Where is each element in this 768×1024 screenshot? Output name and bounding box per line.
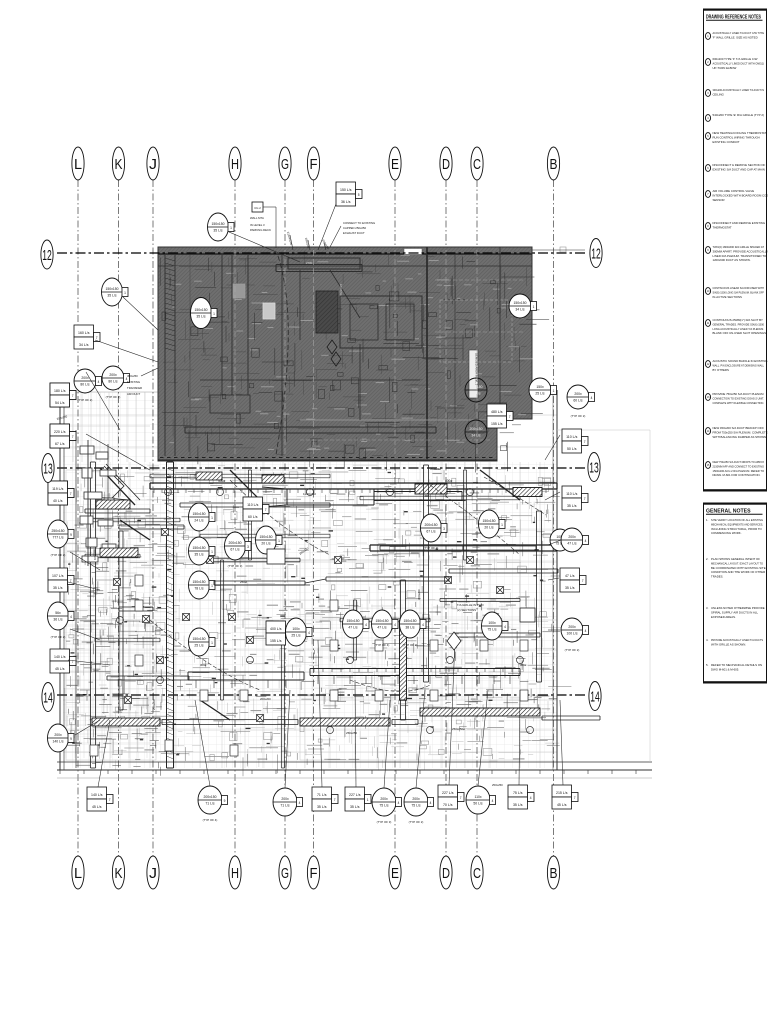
svg-text:150x150: 150x150 [211,222,224,226]
svg-text:150x150: 150x150 [192,580,205,584]
svg-text:1: 1 [213,312,215,316]
svg-text:38 L/s: 38 L/s [405,626,415,630]
svg-text:SIX(6) 1500 LONG S/A PLENUM. B: SIX(6) 1500 LONG S/A PLENUM. BLANK OFF [713,290,765,294]
svg-text:EXISTING: EXISTING [127,380,140,384]
svg-text:LINED R/A PLENUM. TRANSITIONED: LINED R/A PLENUM. TRANSITIONED TO [713,254,768,258]
svg-text:1: 1 [211,550,213,554]
svg-text:12: 12 [42,247,52,264]
svg-text:BY OTHERS: BY OTHERS [713,368,729,372]
svg-text:2700: 2700 [306,261,313,265]
svg-text:SENSOR: SENSOR [713,198,725,202]
svg-text:50 L/s: 50 L/s [567,447,577,451]
svg-text:950x250: 950x250 [430,467,441,471]
svg-text:TRANSFER: TRANSFER [127,386,142,390]
svg-text:160 L/s: 160 L/s [78,331,90,335]
svg-text:MECHANICAL LAYOUT. EXACT LAYOU: MECHANICAL LAYOUT. EXACT LAYOUT TO [711,561,764,565]
svg-text:119 L/s: 119 L/s [52,487,63,491]
svg-text:45 L/s: 45 L/s [92,805,102,809]
svg-text:75 L/s: 75 L/s [487,628,497,632]
svg-text:DEMISED AREA IN LVL 2: DEMISED AREA IN LVL 2 [475,353,479,386]
svg-text:CAPPED 250x250: CAPPED 250x250 [343,226,366,230]
svg-text:150x150: 150x150 [105,287,118,291]
svg-text:200x150: 200x150 [424,523,437,527]
svg-text:2150MM AFF AND CONNECT TO EXIS: 2150MM AFF AND CONNECT TO EXISTING [713,464,765,468]
svg-text:PROVIDE 750x250 S/A DUCT PLENU: PROVIDE 750x250 S/A DUCT PLENUM [713,392,765,396]
svg-text:(TYP OF 2): (TYP OF 2) [571,414,586,418]
svg-text:47 L/s: 47 L/s [348,626,358,630]
svg-text:THERMOSTAT: THERMOSTAT [713,225,732,229]
svg-text:13: 13 [589,459,599,476]
svg-text:45 L/s: 45 L/s [557,803,567,807]
svg-text:140 L/s: 140 L/s [91,793,103,797]
svg-text:IN-ACTIVE SECTIONS: IN-ACTIVE SECTIONS [713,295,742,299]
svg-text:B: B [550,865,558,882]
svg-text:200x150: 200x150 [228,541,241,545]
svg-text:150x150: 150x150 [482,519,495,523]
svg-text:35 L/s: 35 L/s [213,229,223,233]
svg-text:E: E [391,865,399,882]
svg-text:GENERAL TRADES. PROVIDE SIX(6): GENERAL TRADES. PROVIDE SIX(6) 1500 [713,322,765,326]
svg-text:DISCONNECT & REMOVE SECTION OF: DISCONNECT & REMOVE SECTION OF [713,163,766,167]
svg-text:1: 1 [367,798,369,802]
svg-text:(TYP OF 3): (TYP OF 3) [377,820,392,824]
svg-text:(TYP OF 2): (TYP OF 2) [78,398,93,402]
svg-text:4: 4 [422,623,424,627]
svg-text:67 L/s: 67 L/s [55,442,65,446]
svg-text:100 L/s: 100 L/s [566,632,577,636]
svg-text:25 L/s: 25 L/s [291,634,301,638]
svg-text:CONDITION AND THE WORK OF OTHE: CONDITION AND THE WORK OF OTHER [711,570,765,574]
svg-text:FROM 750x250 S/A PLENUM. COMPL: FROM 750x250 S/A PLENUM. COMPLETE [713,430,768,434]
svg-text:EXISTING: EXISTING [339,284,342,296]
svg-text:1: 1 [553,389,555,393]
svg-text:100x: 100x [292,627,300,631]
svg-text:7: 7 [96,336,98,340]
svg-text:200x: 200x [81,376,89,380]
svg-text:TRADES.: TRADES. [711,575,724,579]
svg-text:PROVIDE ACOUSTICALLY LINED T/A: PROVIDE ACOUSTICALLY LINED T/A DUCTS [711,638,763,642]
svg-text:150x150: 150x150 [346,619,359,623]
svg-text:200x: 200x [54,733,62,737]
svg-text:35 L/s: 35 L/s [567,504,577,508]
svg-text:9: 9 [224,799,226,803]
svg-text:1: 1 [501,523,503,527]
svg-text:CONTINUOUS LINEAR S/A DIFFUSER: CONTINUOUS LINEAR S/A DIFFUSER WITH [713,286,765,290]
svg-text:56x: 56x [55,611,61,615]
svg-text:WALL. P/N ENCLOSURE AT DEMISIN: WALL. P/N ENCLOSURE AT DEMISING WALL [713,363,765,367]
svg-text:1: 1 [124,291,126,295]
svg-text:1: 1 [211,641,213,645]
svg-text:200x: 200x [380,797,388,801]
svg-text:UNLESS NOTED OTHERWISE PROVIDE: UNLESS NOTED OTHERWISE PROVIDE [711,606,765,610]
svg-text:4: 4 [585,539,587,543]
svg-text:220 L/s: 220 L/s [54,430,66,434]
svg-text:250x150: 250x150 [51,529,64,533]
svg-text:EXHAUST DUCT: EXHAUST DUCT [343,231,365,235]
svg-text:WITH GRILLE AS SHOWN.: WITH GRILLE AS SHOWN. [711,642,746,646]
svg-text:47 L/s: 47 L/s [565,574,575,578]
svg-text:7: 7 [265,508,267,512]
svg-text:35 L/s: 35 L/s [513,803,523,807]
svg-text:35 L/s: 35 L/s [565,586,575,590]
svg-text:(TYP OF 4): (TYP OF 4) [203,818,218,822]
svg-text:BLANK OFF UN-USED SLOT OPENING: BLANK OFF UN-USED SLOT OPENINGS [713,331,767,335]
svg-text:AIR DUCT: AIR DUCT [127,392,140,396]
svg-text:4: 4 [308,631,310,635]
svg-text:150x150: 150x150 [192,637,205,641]
svg-text:INTERLOCKED WITH BOARD ROOM CO: INTERLOCKED WITH BOARD ROOM CO2 [713,193,768,197]
svg-text:(TYP OF 4): (TYP OF 4) [375,643,390,647]
svg-text:100x100: 100x100 [93,549,97,560]
svg-text:9: 9 [70,533,72,537]
svg-text:4: 4 [504,625,506,629]
svg-text:WITH BALANCING DAMPER AS SHOWN: WITH BALANCING DAMPER AS SHOWN. [713,435,768,439]
svg-text:14: 14 [43,689,53,706]
svg-text:IN LEVEL 3: IN LEVEL 3 [250,223,265,227]
svg-text:60 L/s: 60 L/s [573,399,583,403]
svg-text:7: 7 [582,579,584,583]
svg-text:24 L/s: 24 L/s [194,519,204,523]
svg-text:200x: 200x [281,797,289,801]
svg-text:D: D [442,865,450,882]
svg-text:C: C [473,865,481,882]
svg-text:70 L/s: 70 L/s [443,803,453,807]
svg-text:1: 1 [211,584,213,588]
svg-text:2.: 2. [706,557,709,561]
svg-text:35 L/s: 35 L/s [317,805,327,809]
svg-text:CEILING: CEILING [713,92,724,96]
svg-text:60 L/s: 60 L/s [248,515,258,519]
svg-text:(TYP OF 3): (TYP OF 3) [228,564,243,568]
svg-text:110 L/s: 110 L/s [566,492,577,496]
svg-text:200x: 200x [568,625,576,629]
svg-text:250x200: 250x200 [152,699,156,710]
svg-text:20 L/s: 20 L/s [261,542,271,546]
svg-text:CU-2: CU-2 [254,206,261,210]
svg-text:7: 7 [70,492,72,496]
svg-text:4.: 4. [706,638,709,642]
svg-text:200x: 200x [568,535,576,539]
svg-text:3.: 3. [706,606,709,610]
svg-text:F: F [310,865,318,882]
svg-text:MECHANICAL EQUIPMENTS AND SERV: MECHANICAL EQUIPMENTS AND SERVICES, [711,522,763,526]
svg-text:250x250: 250x250 [492,783,503,787]
svg-text:INCLUDING STRUCTURAL, PRIOR TO: INCLUDING STRUCTURAL, PRIOR TO [711,527,763,531]
svg-text:K: K [115,865,123,882]
svg-text:110x: 110x [474,795,481,799]
svg-text:7: 7 [72,394,74,398]
svg-text:TWO(2) 1800x600 R/A GRILLE SPA: TWO(2) 1800x600 R/A GRILLE SPACED AT [713,245,765,249]
svg-text:480 L/s: 480 L/s [491,410,503,414]
svg-text:'F' WALL GRILLE. SIZE AS NOTED: 'F' WALL GRILLE. SIZE AS NOTED [713,35,758,39]
svg-text:20 L/s: 20 L/s [484,526,494,530]
svg-text:7: 7 [109,798,111,802]
svg-text:7: 7 [460,796,462,800]
svg-text:4: 4 [299,801,301,805]
svg-text:155 L/s: 155 L/s [270,639,282,643]
svg-text:25 L/s: 25 L/s [535,392,545,396]
svg-text:(TYP OF 2): (TYP OF 2) [403,643,418,647]
svg-text:7: 7 [584,497,586,501]
svg-text:1500x200 ACU-2 R/A PLENUM. REF: 1500x200 ACU-2 R/A PLENUM. REFER TO [713,469,765,473]
svg-text:T/A GRILLE IN TWO: T/A GRILLE IN TWO [457,603,484,607]
svg-text:50 L/s: 50 L/s [473,802,483,806]
svg-text:5.: 5. [706,663,709,667]
svg-text:450x250: 450x250 [127,374,138,378]
svg-text:12: 12 [591,245,601,262]
svg-text:300x200: 300x200 [417,589,421,600]
svg-text:36 L/s: 36 L/s [341,200,351,204]
svg-text:(TYP OF 2): (TYP OF 2) [51,635,66,639]
svg-text:5: 5 [358,193,360,197]
svg-text:H: H [231,865,239,882]
svg-text:150x150: 150x150 [375,619,388,623]
svg-text:PLAN SHOWS GENERAL INTENT OF: PLAN SHOWS GENERAL INTENT OF [711,557,760,561]
svg-text:9: 9 [70,737,72,741]
svg-text:25 L/s: 25 L/s [194,644,204,648]
svg-text:777 L/s: 777 L/s [52,536,63,540]
svg-text:400 L/s: 400 L/s [270,627,282,631]
svg-text:200x: 200x [412,797,420,801]
svg-text:E: E [391,156,399,173]
svg-text:D: D [442,156,450,173]
svg-text:F: F [310,156,318,173]
svg-text:150x150: 150x150 [192,546,205,550]
svg-text:75 L/s: 75 L/s [411,804,421,808]
svg-text:BE COORDINATED WITH EXISTING S: BE COORDINATED WITH EXISTING SITE [711,566,766,570]
svg-text:G: G [281,865,289,882]
svg-text:54 L/s: 54 L/s [55,401,65,405]
svg-text:35 L/s: 35 L/s [196,315,206,319]
svg-text:RUN CONTROL WIRING THROUGH: RUN CONTROL WIRING THROUGH [713,135,760,139]
svg-text:ACOUSTICALLY LINED DUCT WITH O: ACOUSTICALLY LINED DUCT WITH ONE(1) [713,61,765,65]
svg-text:40 L/s: 40 L/s [53,499,63,503]
svg-text:300x200 ACOUSTICALLY LINED T/A: 300x200 ACOUSTICALLY LINED T/A DUCT IN [713,88,765,92]
svg-text:L: L [74,865,82,882]
svg-text:CONTINUOUS 25MM(1") R/A SLOT B: CONTINUOUS 25MM(1") R/A SLOT BY [713,318,764,322]
svg-text:(2) SECTIONS: (2) SECTIONS [457,608,476,612]
svg-text:CONNECTION TO EXISTING DOAS-2: CONNECTION TO EXISTING DOAS-2 UNIT. [713,396,765,400]
svg-text:150x150: 150x150 [192,512,205,516]
svg-text:107 L/s: 107 L/s [52,574,64,578]
svg-text:7: 7 [509,415,511,419]
svg-text:150x150: 150x150 [194,308,207,312]
svg-text:PARKING DECK: PARKING DECK [250,228,271,232]
svg-text:200x150: 200x150 [203,795,216,799]
svg-text:4: 4 [70,615,72,619]
svg-text:1: 1 [278,539,280,543]
svg-text:J: J [149,156,157,173]
svg-text:UP-TURN ELBOW: UP-TURN ELBOW [713,66,737,70]
svg-text:200x200: 200x200 [260,697,271,701]
svg-text:35 L/s: 35 L/s [194,553,204,557]
svg-text:L: L [74,156,82,173]
svg-text:150 L/s: 150 L/s [340,188,352,192]
svg-text:REFER TO MECHANICAL DETAILS ON: REFER TO MECHANICAL DETAILS ON [711,663,762,667]
svg-text:4: 4 [585,629,587,633]
svg-text:150x150: 150x150 [513,301,526,305]
svg-text:WALL MTA: WALL MTA [250,216,264,220]
svg-text:4: 4 [530,796,532,800]
svg-text:(TYP OF 3): (TYP OF 3) [424,546,439,550]
svg-text:B: B [550,156,558,173]
svg-text:7: 7 [334,798,336,802]
svg-text:EXISTING CONDUIT: EXISTING CONDUIT [713,140,740,144]
svg-text:300ø: 300ø [200,663,207,667]
svg-text:13: 13 [43,460,53,477]
svg-text:4: 4 [430,801,432,805]
svg-text:47 L/s: 47 L/s [377,626,387,630]
svg-text:(TYP OF 2): (TYP OF 2) [106,395,121,399]
svg-text:36 L/s: 36 L/s [53,618,63,622]
svg-text:EXISTING S/A DUCT AND CAP AT M: EXISTING S/A DUCT AND CAP AT MAIN [713,167,765,171]
svg-text:75 L/s: 75 L/s [513,791,523,795]
svg-text:4: 4 [591,396,593,400]
svg-text:DWG M-601 & M-605.: DWG M-601 & M-605. [711,667,739,671]
svg-text:7: 7 [72,435,74,439]
svg-text:G: G [281,156,289,173]
svg-text:80 L/s: 80 L/s [80,383,90,387]
svg-text:71 L/s: 71 L/s [205,802,215,806]
svg-text:ACOUSTICALLY LINED T/A DUCT C/: ACOUSTICALLY LINED T/A DUCT C/W TYPE [713,31,765,35]
svg-text:NEW 750x250 S/A DUCT DROPS TO: NEW 750x250 S/A DUCT DROPS TO APROX [713,460,765,464]
svg-text:47 L/s: 47 L/s [567,542,577,546]
svg-text:DISCONNECT AND REMOVE EXISTING: DISCONNECT AND REMOVE EXISTING [713,221,766,225]
svg-text:34 L/s: 34 L/s [515,308,525,312]
svg-text:47 L/s: 47 L/s [471,392,481,396]
svg-text:H: H [231,156,239,173]
svg-text:4: 4 [98,380,100,384]
svg-text:EXPOSED AREAS.: EXPOSED AREAS. [711,615,736,619]
svg-text:34 L/s: 34 L/s [79,343,89,347]
svg-text:ACOUSTIC SOUND BAFFLE IN EXIST: ACOUSTIC SOUND BAFFLE IN EXISTING [713,359,768,363]
svg-text:35 L/s: 35 L/s [107,294,117,298]
svg-text:DRAW. M-601 FOR CONTINUATION.: DRAW. M-601 FOR CONTINUATION. [713,473,761,477]
svg-text:NEW 450x200 S/A DUCT BRANCH OF: NEW 450x200 S/A DUCT BRANCH OFF [713,426,765,430]
svg-text:71 L/s: 71 L/s [317,793,327,797]
svg-text:1.: 1. [706,518,709,522]
svg-text:1: 1 [211,516,213,520]
svg-text:DRAWING REFERENCE NOTES: DRAWING REFERENCE NOTES [706,15,761,21]
svg-text:110 L/s: 110 L/s [247,503,258,507]
svg-text:100x: 100x [488,621,496,625]
svg-text:1: 1 [533,305,535,309]
svg-text:45 L/s: 45 L/s [55,667,65,671]
svg-text:7: 7 [574,796,576,800]
svg-text:SPIRAL SUPPLY AIR DUCTS IN ALL: SPIRAL SUPPLY AIR DUCTS IN ALL [711,610,758,614]
svg-text:(TYP OF 2): (TYP OF 2) [409,820,424,824]
svg-text:75 L/s: 75 L/s [379,804,389,808]
svg-text:3: 3 [247,545,249,549]
svg-text:78 L/s: 78 L/s [194,587,204,591]
svg-text:4: 4 [365,623,367,627]
svg-text:NEW HEATING/COOLING THERMOSTAT: NEW HEATING/COOLING THERMOSTAT [713,131,767,135]
svg-text:600x200 TYPE 'F' T/A GRILLE C/: 600x200 TYPE 'F' T/A GRILLE C/W [713,57,758,61]
svg-text:4: 4 [394,623,396,627]
svg-text:150x150: 150x150 [469,385,482,389]
svg-text:150x150: 150x150 [259,535,272,539]
svg-text:GENERAL NOTES: GENERAL NOTES [706,509,751,515]
svg-text:COMMENCING WORK.: COMMENCING WORK. [711,531,742,535]
svg-text:14: 14 [590,688,600,705]
svg-text:4: 4 [492,799,494,803]
svg-text:35 L/s: 35 L/s [350,805,360,809]
svg-text:80 L/s: 80 L/s [108,380,118,384]
svg-text:1: 1 [230,226,232,230]
svg-text:4: 4 [398,801,400,805]
svg-text:AIR VOLUME CONTROL VALVE: AIR VOLUME CONTROL VALVE [713,189,755,193]
svg-text:140 L/s: 140 L/s [52,740,63,744]
svg-text:300MM APART. PROVIDE ACOUSTICA: 300MM APART. PROVIDE ACOUSTICALLY [713,249,768,253]
svg-text:540x200 TYPE 'E' R/A GRILLE (T: 540x200 TYPE 'E' R/A GRILLE (TYP 2) [713,113,765,117]
svg-text:180 L/s: 180 L/s [54,389,66,393]
svg-text:LONG ACOUSTICALLY LINED T/A PL: LONG ACOUSTICALLY LINED T/A PLENUM. [713,327,765,331]
svg-text:7: 7 [584,440,586,444]
svg-text:1200x600 DUCT AS SHOWN.: 1200x600 DUCT AS SHOWN. [713,258,751,262]
svg-text:CONNECT TO EXISTING: CONNECT TO EXISTING [343,221,375,225]
svg-text:150x150: 150x150 [403,619,416,623]
svg-text:J: J [149,865,157,882]
svg-text:400ø: 400ø [445,479,452,483]
svg-text:67 L/s: 67 L/s [426,530,436,534]
svg-text:67 L/s: 67 L/s [230,548,240,552]
svg-text:35 L/s: 35 L/s [53,586,63,590]
svg-text:K: K [115,156,123,173]
svg-text:250x250ø: 250x250ø [452,727,465,731]
svg-text:200x: 200x [109,373,117,377]
svg-text:(TYP OF 2): (TYP OF 2) [565,648,580,652]
svg-text:200x: 200x [574,392,582,396]
svg-text:227 L/s: 227 L/s [442,791,454,795]
svg-text:34 L/s: 34 L/s [471,434,481,438]
svg-text:200x150: 200x150 [469,427,482,431]
svg-text:COMPLETE WITH FLEXIBLE CONNECT: COMPLETE WITH FLEXIBLE CONNECTION. [713,401,765,405]
svg-text:110 L/s: 110 L/s [566,435,577,439]
svg-text:71 L/s: 71 L/s [280,804,290,808]
svg-text:3: 3 [443,527,445,531]
svg-text:(TYP OF 2): (TYP OF 2) [51,553,66,557]
svg-text:SITE VERIFY LOCATION OF ALL EX: SITE VERIFY LOCATION OF ALL EXISTING [711,518,763,522]
svg-text:140 L/s: 140 L/s [54,655,66,659]
svg-text:155 L/s: 155 L/s [491,422,503,426]
svg-text:150x: 150x [536,385,544,389]
svg-text:227 L/s: 227 L/s [349,793,361,797]
svg-text:C: C [473,156,481,173]
svg-text:215 L/s: 215 L/s [556,791,568,795]
